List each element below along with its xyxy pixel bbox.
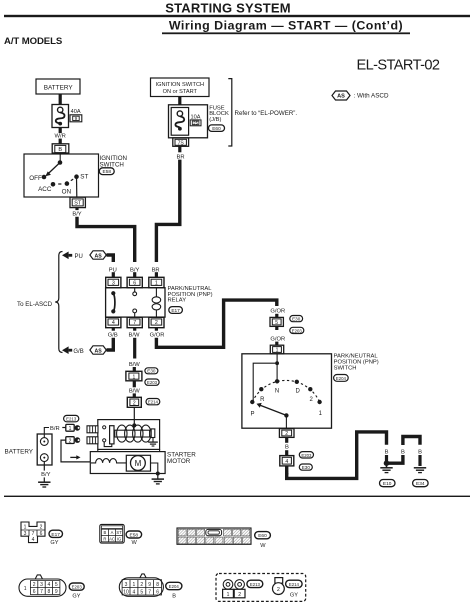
- svg-text:10: 10: [123, 589, 129, 595]
- svg-text:1: 1: [319, 411, 323, 417]
- battery B1 symbol: [37, 434, 52, 465]
- legend oval E214: [286, 580, 303, 587]
- wire pin 2 to PNP switch: [156, 300, 276, 347]
- dashed selector arc: [252, 380, 319, 402]
- wire connector 2 to motor: [61, 440, 90, 462]
- wire pivot to terminal 2: [285, 415, 287, 428]
- node junction: [275, 361, 279, 365]
- legend oval E204: [166, 582, 182, 589]
- solenoid contact circle upper: [103, 426, 106, 429]
- wire to fuse block: [178, 97, 181, 105]
- svg-text:4: 4: [285, 459, 288, 465]
- contact D: [295, 380, 299, 384]
- connector oval E17: [169, 307, 183, 314]
- fuse block outline: [169, 105, 208, 138]
- svg-text:AC: AC: [109, 537, 115, 542]
- svg-text:ST: ST: [116, 530, 122, 535]
- wire 7S to relay pin 1: [156, 160, 179, 262]
- legend connector E60 strip: [177, 528, 251, 544]
- relay coil: [152, 288, 161, 317]
- svg-text:A: A: [111, 530, 114, 535]
- svg-text:N: N: [275, 388, 279, 394]
- ground symbol starter motor: [152, 474, 164, 484]
- legend oval E17: [49, 530, 63, 537]
- svg-text:2: 2: [285, 431, 288, 437]
- svg-text:R: R: [103, 537, 106, 542]
- legend connector E17 outline: [21, 522, 45, 543]
- svg-text:SWITCH: SWITCH: [334, 365, 357, 371]
- svg-text:1: 1: [24, 525, 27, 531]
- position dashes: [58, 183, 61, 185]
- svg-text:E58: E58: [130, 533, 139, 539]
- switch wire to P contact: [253, 363, 277, 402]
- svg-text:5: 5: [275, 320, 278, 326]
- offpage arrow PU: [62, 252, 69, 260]
- svg-text:7: 7: [148, 589, 151, 595]
- wire stub below pin 2: [155, 328, 158, 331]
- svg-text:: With ASCD: : With ASCD: [354, 93, 389, 100]
- fuse 10A no.25: [171, 108, 201, 136]
- svg-text:9: 9: [55, 589, 58, 595]
- rule under title: [4, 15, 470, 17]
- svg-text:ON or START: ON or START: [163, 89, 198, 95]
- connector oval E203 upper: [299, 452, 313, 458]
- connector oval E58: [99, 168, 114, 175]
- svg-text:W: W: [260, 543, 266, 549]
- wire stub below 7S: [178, 146, 181, 152]
- svg-text:AS: AS: [94, 348, 102, 354]
- ground run to E34: [387, 455, 403, 463]
- wire stub to connector 1: [133, 367, 136, 371]
- svg-text:2: 2: [277, 587, 280, 593]
- svg-text:B: B: [401, 450, 405, 456]
- ignition switch arm: [48, 163, 60, 174]
- svg-text:E203: E203: [147, 380, 158, 385]
- contact R: [259, 387, 263, 391]
- wire battery to fuse: [59, 94, 62, 105]
- connector 1 E30/E203: [126, 371, 142, 381]
- svg-text:1: 1: [24, 586, 27, 592]
- rule above connector legend: [4, 496, 470, 497]
- connector 2 bullet: [66, 437, 74, 444]
- connector 2 E214: [127, 397, 141, 407]
- motor M1: [126, 455, 150, 471]
- connector 1 bullet: [66, 424, 74, 431]
- wire pin 7 down: [133, 338, 136, 359]
- svg-text:1: 1: [155, 281, 158, 287]
- svg-text:ST: ST: [74, 201, 82, 207]
- svg-text:E58: E58: [103, 169, 112, 175]
- link lower contact to plate: [104, 442, 112, 447]
- svg-text:EL-START-02: EL-START-02: [357, 57, 440, 73]
- wire arch to E34: [403, 437, 420, 446]
- wire stub to connector 5: [275, 314, 278, 318]
- connector oval E34: [413, 480, 429, 487]
- relay pin 2: [149, 317, 164, 327]
- svg-text:STARTING SYSTEM: STARTING SYSTEM: [165, 1, 291, 16]
- svg-text:B/W: B/W: [129, 332, 140, 338]
- svg-text:E10: E10: [383, 481, 392, 487]
- svg-text:7S: 7S: [178, 140, 185, 146]
- svg-text:IGNITION SWITCH: IGNITION SWITCH: [156, 82, 204, 88]
- svg-text:AS: AS: [94, 253, 102, 259]
- svg-text:E203: E203: [301, 453, 312, 458]
- relay pin 7: [127, 317, 142, 327]
- wire B into switch: [59, 153, 61, 162]
- svg-text:W/R: W/R: [55, 133, 66, 139]
- svg-text:B: B: [285, 445, 289, 451]
- connector oval E30 at B/W: [145, 368, 158, 374]
- ignition switch ON or START feed box: [151, 78, 210, 97]
- svg-text:9: 9: [75, 116, 78, 122]
- svg-text:E30: E30: [302, 465, 311, 470]
- connector oval E204: [334, 375, 349, 382]
- svg-text:4: 4: [112, 320, 115, 326]
- svg-text:E204: E204: [169, 584, 180, 589]
- PNP relay box E17: [106, 288, 165, 317]
- legend oval E203: [69, 583, 84, 590]
- svg-text:8: 8: [156, 582, 159, 588]
- svg-text:P: P: [250, 411, 254, 417]
- svg-text:B: B: [418, 450, 422, 456]
- svg-text:G/B: G/B: [73, 349, 83, 355]
- svg-text:25: 25: [193, 121, 198, 126]
- wire stub below pin 7: [133, 328, 136, 331]
- starter solenoid box: [98, 420, 160, 450]
- fuse 40A no.9: [52, 105, 82, 128]
- svg-text:10A: 10A: [191, 114, 201, 120]
- flow arrow: [70, 456, 77, 458]
- node junction grounds: [384, 460, 390, 466]
- svg-text:1: 1: [227, 592, 230, 598]
- svg-text:IG: IG: [117, 537, 121, 542]
- svg-text:5: 5: [140, 589, 143, 595]
- legend connector E203 shell: [35, 575, 42, 579]
- svg-text:1: 1: [69, 426, 72, 432]
- svg-text:D: D: [296, 389, 301, 395]
- svg-text:2: 2: [155, 320, 158, 326]
- badge AS for G/B: [90, 346, 106, 354]
- svg-text:2: 2: [33, 582, 36, 588]
- wire to junction: [385, 455, 388, 463]
- solenoid fixed contact: [151, 429, 155, 438]
- svg-text:Refer to “EL-POWER”.: Refer to “EL-POWER”.: [235, 110, 298, 117]
- relay switch contact: [113, 293, 115, 311]
- svg-text:1: 1: [133, 374, 136, 380]
- contact N: [275, 379, 279, 383]
- bracket for EL-POWER note: [228, 79, 232, 146]
- svg-text:5: 5: [55, 582, 58, 588]
- svg-text:AS: AS: [337, 94, 345, 100]
- wire stub to pin 1: [155, 272, 158, 277]
- svg-text:G/OR: G/OR: [270, 336, 285, 342]
- svg-text:6: 6: [40, 531, 43, 537]
- svg-text:B/Y: B/Y: [72, 211, 81, 217]
- wire W/R to connector B: [59, 139, 62, 144]
- svg-text:B: B: [104, 530, 107, 535]
- svg-text:BR: BR: [176, 154, 184, 160]
- svg-text:B/R: B/R: [50, 426, 60, 432]
- svg-text:MOTOR: MOTOR: [167, 458, 191, 465]
- svg-text:2: 2: [69, 439, 72, 445]
- PNP switch box E204: [242, 354, 332, 428]
- motor field coil: [91, 459, 126, 463]
- wire stub below pin 4: [112, 328, 115, 331]
- svg-text:4: 4: [32, 537, 35, 543]
- link solenoid box to motor box: [97, 449, 99, 451]
- legend oval E213: [247, 580, 263, 587]
- connector oval E30 lower: [299, 464, 312, 470]
- svg-text:6: 6: [33, 589, 36, 595]
- svg-text:2: 2: [40, 525, 43, 531]
- wire battery negative: [43, 462, 45, 471]
- wire pin 4 to badge: [107, 338, 114, 350]
- solenoid moving contact plate: [110, 426, 114, 444]
- ignition switch contacts: [42, 160, 79, 186]
- PNP switch terminal 1: [270, 345, 283, 354]
- svg-text:G/OR: G/OR: [150, 332, 165, 338]
- svg-text:7: 7: [133, 320, 136, 326]
- svg-text:Wiring Diagram — START — (Cont: Wiring Diagram — START — (Cont’d): [169, 18, 403, 32]
- svg-text:7: 7: [32, 531, 35, 537]
- wire stub to terminal 1: [275, 342, 278, 346]
- svg-text:E203: E203: [292, 328, 303, 333]
- connector oval E10: [380, 480, 396, 487]
- svg-text:E204: E204: [336, 376, 347, 381]
- ignition switch box E58: [24, 154, 99, 197]
- svg-text:E214: E214: [289, 582, 300, 587]
- wire battery positive to B/R: [44, 428, 49, 438]
- svg-text:OFF: OFF: [29, 175, 42, 182]
- svg-text:B: B: [58, 147, 62, 153]
- node at motor ground: [156, 472, 160, 476]
- legend oval E60: [255, 532, 271, 539]
- svg-text:B: B: [172, 594, 176, 600]
- connector oval E213 at starter: [64, 415, 79, 421]
- svg-text:G/B: G/B: [108, 332, 118, 338]
- svg-text:2: 2: [238, 592, 241, 598]
- svg-text:2: 2: [310, 397, 314, 403]
- svg-text:GY: GY: [290, 592, 298, 598]
- svg-text:6: 6: [156, 589, 159, 595]
- wire badge to relay pin 3: [107, 255, 114, 262]
- svg-text:BATTERY: BATTERY: [44, 84, 74, 91]
- connector oval E203 at B/W: [145, 379, 159, 385]
- wire motor to ground: [151, 463, 158, 474]
- svg-text:E60: E60: [258, 533, 267, 539]
- connector B: [52, 144, 69, 153]
- relay pin 3: [106, 277, 121, 287]
- solenoid coil: [117, 425, 151, 442]
- offpage arrow G/B: [62, 346, 69, 354]
- svg-text:E213: E213: [66, 417, 77, 422]
- svg-text:2: 2: [140, 582, 143, 588]
- svg-text:3: 3: [24, 531, 27, 537]
- node on solenoid coil: [132, 423, 136, 427]
- svg-text:4: 4: [48, 582, 51, 588]
- svg-text:9: 9: [148, 582, 151, 588]
- svg-text:PU: PU: [75, 254, 83, 260]
- solenoid contact circle lower: [103, 439, 106, 442]
- rule under subtitle: [162, 32, 410, 34]
- badge AS for PU: [90, 251, 106, 259]
- relay pin 1: [149, 277, 164, 287]
- wire B/R to connector 1: [62, 427, 65, 429]
- svg-text:To EL-ASCD: To EL-ASCD: [17, 301, 53, 308]
- svg-text:1: 1: [276, 348, 279, 354]
- legend dashed group box: [216, 574, 306, 602]
- battery feed box B1: [36, 79, 80, 94]
- ground symbol battery: [38, 477, 50, 487]
- connector oval E30: [290, 316, 303, 322]
- connector oval E60: [209, 125, 225, 131]
- wire into solenoid: [133, 407, 135, 424]
- svg-text:E213: E213: [250, 582, 261, 587]
- svg-text:E30: E30: [292, 317, 301, 322]
- svg-text:4: 4: [133, 589, 136, 595]
- legend E213 terminal 1: [223, 580, 233, 590]
- wire ST contact to ST terminal: [76, 177, 78, 197]
- svg-text:E60: E60: [212, 126, 221, 132]
- connector oval E203: [290, 327, 304, 333]
- svg-text:M: M: [135, 459, 142, 468]
- svg-text:BATTERY: BATTERY: [5, 448, 34, 455]
- ground run to E10: [287, 432, 387, 479]
- svg-text:3: 3: [40, 582, 43, 588]
- svg-text:ON: ON: [62, 188, 72, 195]
- svg-text:E17: E17: [171, 308, 180, 314]
- svg-text:8: 8: [48, 589, 51, 595]
- svg-text:E203: E203: [72, 585, 83, 590]
- wire stub below connector 1: [133, 381, 136, 388]
- brace To EL-ASCD: [55, 252, 62, 353]
- legend oval E58: [126, 531, 142, 538]
- svg-text:ST: ST: [80, 173, 88, 180]
- svg-text:2: 2: [133, 401, 136, 407]
- starter motor box: [90, 452, 165, 474]
- solenoid internal ground: [148, 438, 158, 447]
- svg-text:GY: GY: [50, 540, 58, 546]
- legend E213 terminal 2: [235, 580, 245, 590]
- ground symbol E10: [380, 465, 392, 473]
- svg-text:3: 3: [125, 582, 128, 588]
- svg-text:RELAY: RELAY: [168, 298, 187, 304]
- svg-text:GY: GY: [72, 594, 80, 600]
- solenoid plunger shaft: [115, 430, 150, 437]
- svg-text:B: B: [385, 450, 389, 456]
- solenoid terminal stub lower: [87, 437, 98, 444]
- contact 2: [308, 387, 312, 391]
- wire stub below ST: [75, 208, 78, 210]
- contact P: [250, 400, 254, 404]
- pivot node: [284, 413, 288, 417]
- svg-text:(J/B): (J/B): [209, 117, 221, 123]
- legend connector E204 shell: [140, 574, 146, 578]
- svg-text:R: R: [260, 397, 265, 403]
- legend E60 key slot: [206, 529, 222, 535]
- wire stub to connector 4: [285, 450, 288, 455]
- selector arm: [260, 405, 287, 415]
- svg-text:W: W: [132, 540, 138, 546]
- svg-text:1: 1: [133, 582, 136, 588]
- connector 5: [270, 317, 283, 326]
- relay plunger contacts pin6/7: [134, 288, 136, 292]
- connector 7S: [173, 138, 189, 146]
- wire ST to relay pin 6: [77, 217, 135, 262]
- ground symbol E34: [414, 468, 426, 473]
- wire stub below connector 5: [275, 326, 278, 330]
- svg-text:3: 3: [112, 281, 115, 287]
- relay pin 6: [127, 277, 142, 287]
- wire stub to connector 2: [133, 393, 136, 397]
- svg-text:E30: E30: [147, 369, 156, 374]
- svg-text:7: 7: [40, 589, 43, 595]
- connector oval E214 at starter: [146, 399, 160, 405]
- solenoid terminal stub upper: [87, 426, 98, 433]
- svg-text:G/OR: G/OR: [270, 309, 285, 315]
- svg-text:E34: E34: [416, 481, 425, 487]
- wire stub to pin 3: [112, 272, 115, 277]
- svg-text:ACC: ACC: [38, 186, 52, 193]
- connector 4: [280, 456, 294, 466]
- switch wire from terminal 1: [276, 354, 278, 382]
- PNP switch terminal 2: [279, 429, 294, 438]
- svg-text:40A: 40A: [71, 109, 81, 115]
- wire fuse to W/R: [59, 128, 62, 134]
- svg-text:6: 6: [133, 281, 136, 287]
- contact 1: [317, 400, 321, 404]
- wire stub to pin 6: [133, 272, 136, 277]
- legend connector E58 outline: [100, 524, 124, 543]
- svg-text:E17: E17: [51, 532, 60, 538]
- svg-text:E214: E214: [148, 400, 159, 405]
- wire to ground E34: [418, 455, 421, 466]
- relay pin 4: [106, 317, 121, 327]
- svg-text:A/T MODELS: A/T MODELS: [4, 36, 63, 47]
- connector ST: [70, 197, 85, 207]
- badge AS legend: [332, 91, 350, 100]
- legend E214 terminal: [275, 578, 283, 584]
- svg-text:B/Y: B/Y: [41, 472, 50, 478]
- wire stub below terminal 2: [285, 437, 288, 442]
